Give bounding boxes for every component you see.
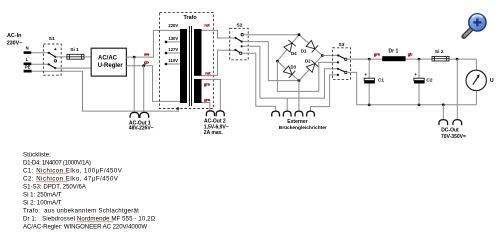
svg-text:110V: 110V [168,58,178,63]
svg-text:DC-Out: DC-Out [441,128,459,134]
wire sec2 top to AC-Out2 right [202,79,221,111]
svg-text:Brückengleichrichter: Brückengleichrichter [279,125,327,131]
wire N to S1 [31,52,49,54]
svg-text:U-Regler: U-Regler [98,63,124,69]
wire S3 common2 to bottom rail [347,72,476,104]
fuse Si 1 [67,47,84,59]
AC-Out 1 connector [130,112,149,117]
secondary winding 1 [194,29,202,76]
svg-text:gb: gb [144,59,149,64]
switch S1 [43,36,61,75]
svg-text:C1: C1 [378,78,384,84]
svg-text:230V~: 230V~ [7,41,23,47]
wire fuse to regler [84,56,91,58]
svg-text:127V: 127V [168,47,178,52]
node C2 top [418,58,421,61]
svg-text:grn: grn [374,51,381,56]
svg-text:sw: sw [144,51,150,56]
wire junction down to AC-Out1 left [133,57,135,112]
svg-text:gb: gb [408,51,413,56]
underline Nichicon C2 [36,181,68,183]
svg-text:Trafo: aus unbekanntem Schlac: Trafo: aus unbekanntem Schlachtgerät [23,207,139,214]
wire sec1 top to S2 pole1 [202,30,236,38]
wire S2 throw3 down [243,46,260,98]
svg-text:U: U [490,78,494,84]
svg-text:48V-226V~: 48V-226V~ [129,126,154,132]
svg-text:S1-S3: DPDT, 250V/6A: S1-S3: DPDT, 250V/6A [23,183,87,190]
transformer T1 dashed box [160,13,214,109]
fuse Si 2 [432,49,449,61]
wire S1 pole2 to regler [55,67,91,69]
svg-text:70V-350V=: 70V-350V= [441,134,466,140]
svg-text:Trafo: Trafo [184,15,198,21]
node C1 bottom [368,103,371,106]
wire sec1 bottom to S2 pole2 [202,50,236,75]
wire bridge bottom to pin3 [298,81,300,112]
svg-text:2A max.: 2A max. [204,130,224,136]
svg-text:AC/AC-Regler: WINGONEER AC 220: AC/AC-Regler: WINGONEER AC 220V/4000W [23,223,147,230]
wire regler upper out to 220V tap [126,30,180,57]
node bridge right [321,54,324,57]
wire junction down to AC-Out1 right [143,66,145,113]
svg-text:Si 1: Si 1 [70,47,79,53]
underline Nordmende [77,221,114,223]
diode D1 [306,40,318,52]
bridge connector pins [272,111,315,116]
svg-text:AC-In: AC-In [7,33,21,39]
capacitor C1 [364,59,384,105]
svg-text:220V: 220V [168,23,178,28]
wire pin4 to S3 contact4 [311,75,338,111]
node DC-Out left [442,103,445,106]
wire pin2 feed to S3 contact3 [260,69,338,98]
svg-text:+: + [364,72,367,77]
svg-text:S1: S1 [49,36,55,42]
bridge rectifier edges [277,35,322,81]
svg-text:D1-D4: 1N4007 (1000V/1A): D1-D4: 1N4007 (1000V/1A) [23,159,91,166]
svg-text:Si 2: 100mA/T: Si 2: 100mA/T [23,199,62,206]
svg-text:Si 1: 250mA/T: Si 1: 250mA/T [23,191,62,198]
svg-text:gra: gra [204,97,211,102]
svg-text:+: + [414,72,417,77]
secondary winding 2 [194,79,202,103]
wire S2 throw4 to bridge pin1 [242,53,276,111]
core [188,26,190,106]
svg-text:PE: PE [25,65,31,70]
node: regler lower out junction [142,64,145,67]
svg-text:N: N [26,46,29,51]
svg-text:S3: S3 [339,42,345,48]
underline Nichicon C1 [36,173,68,175]
svg-text:Stückliste:: Stückliste: [23,151,51,158]
wire sec2 bottom to AC-Out2 left [202,103,210,111]
wire S2 throw2 to bridge bottom [243,42,299,81]
node C2 bottom [418,103,421,106]
AC-Out 2 connector [206,111,224,116]
parts list [23,151,156,230]
node on trafo border (PE) [176,107,179,110]
magnifier icon [464,14,486,37]
wire PE to trafo box [32,71,179,111]
wire L to S1 [31,63,48,65]
svg-text:AC/AC: AC/AC [98,56,118,62]
primary winding [180,29,187,103]
AC/AC U-Regler U1 [91,48,126,76]
svg-text:D1: D1 [301,49,307,54]
node bridge top [298,33,301,36]
wire S2 throw1 to bridge top [243,34,299,36]
svg-text:D4: D4 [291,51,297,56]
diode D4 [284,40,296,52]
wire pin2 drop [286,98,288,111]
wire S1 to fuse [55,56,67,58]
node bridge bottom [298,79,301,82]
svg-text:rot: rot [204,22,210,27]
node C1 top [368,58,371,61]
wire S3 common1 to top rail [347,58,476,60]
svg-text:Externer: Externer [287,119,307,125]
wire regler lower out to primary bottom [126,66,180,102]
switch S2 [230,23,249,60]
wire bridge right to S3 contact1 [322,54,338,56]
node Si2 right [456,58,459,61]
capacitor C2 [414,59,433,105]
svg-text:L: L [26,57,29,62]
svg-text:S2: S2 [237,23,243,29]
svg-text:Si 2: Si 2 [435,49,444,55]
switch S3 [333,42,351,79]
svg-text:Dr 1: Dr 1 [389,48,399,54]
voltmeter U [466,59,494,105]
diode D2 [306,60,318,72]
svg-text:130V: 130V [168,36,178,41]
svg-text:D2: D2 [305,59,311,64]
DC-Out connector [442,105,444,120]
svg-text:grn: grn [204,82,211,87]
wire bridge left to S3 contact2 [277,61,338,91]
svg-text:rot: rot [205,70,211,75]
svg-text:D3: D3 [291,65,297,70]
node bridge left [276,60,279,63]
diode D3 [283,66,295,78]
svg-text:C2: C2 [426,78,432,84]
node: regler upper out junction [133,56,136,59]
